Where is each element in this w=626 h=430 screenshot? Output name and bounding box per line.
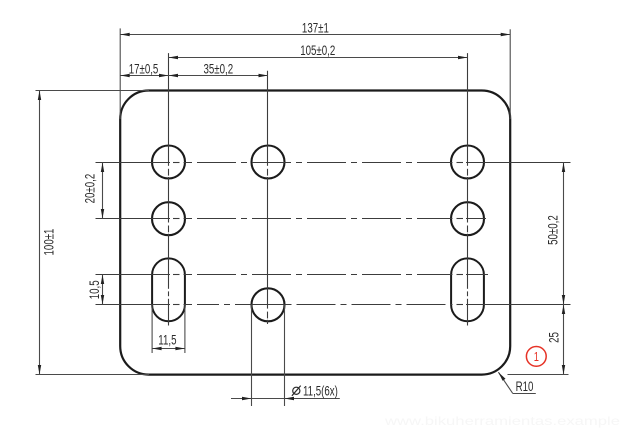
hole row2 col3 (451, 202, 484, 235)
dimension 105±0,2 (169, 57, 468, 59)
svg-text:100±1: 100±1 (42, 229, 57, 256)
svg-text:R10: R10 (516, 380, 534, 395)
dimension 35±0,2 (169, 75, 269, 77)
extension line bottom edge left (36, 374, 150, 376)
hole bottom col2 (252, 288, 285, 321)
hole row1 col2 (252, 146, 285, 179)
dimension 17±0,5 (120, 75, 168, 77)
hole row1 col3 (451, 146, 484, 179)
svg-text:1: 1 (534, 351, 539, 365)
balloon 1 red (526, 347, 546, 367)
slot col1 (152, 258, 185, 321)
svg-text:www.bikuherramientas.example: www.bikuherramientas.example (384, 414, 621, 428)
svg-text:35±0,2: 35±0,2 (203, 62, 233, 77)
centerline dash gaps inside holes (169, 163, 468, 320)
svg-text:11,5: 11,5 (158, 333, 177, 348)
svg-text:137±1: 137±1 (302, 21, 329, 36)
hole row1 col1 (152, 146, 185, 179)
dimension dia 11,5 (6x) (231, 398, 340, 400)
dimension 137±1 (120, 34, 510, 36)
centerline row1 (96, 162, 571, 164)
centerline col2 vertical (267, 71, 269, 324)
centerline row4 (96, 304, 571, 306)
extension line bottom edge right (508, 374, 569, 376)
svg-text:17±0,5: 17±0,5 (129, 62, 159, 77)
hole row2 col1 (152, 202, 185, 235)
extension line top edge left (36, 90, 150, 92)
svg-text:10,5: 10,5 (88, 280, 103, 299)
dimension 50±0,2 (563, 163, 565, 305)
svg-text:11,5(6x): 11,5(6x) (303, 384, 338, 399)
extension lines slot col1 tangents (151, 305, 153, 354)
svg-text:20±0,2: 20±0,2 (83, 174, 98, 204)
extension line plate right top (509, 29, 511, 119)
leader R10 (498, 372, 535, 393)
dimension 20±0,2 (102, 163, 104, 219)
extension line plate left top (119, 28, 121, 119)
plate outline (120, 91, 510, 375)
centerline row3 (96, 274, 489, 276)
diameter symbol (292, 386, 301, 396)
dimension 10,5 (102, 275, 104, 305)
dimension 100±1 (39, 91, 41, 375)
dimension 25 (563, 305, 565, 375)
svg-text:25: 25 (547, 332, 562, 343)
svg-text:50±0,2: 50±0,2 (546, 215, 561, 245)
svg-text:105±0,2: 105±0,2 (300, 44, 335, 59)
slot col3 (451, 258, 484, 321)
extension lines hole col2 tangents (251, 305, 253, 406)
centerline row2 (96, 218, 487, 220)
centerline col3 vertical (467, 53, 469, 325)
centerline col1 vertical (168, 53, 170, 325)
dimension 11,5 slot (152, 348, 185, 350)
